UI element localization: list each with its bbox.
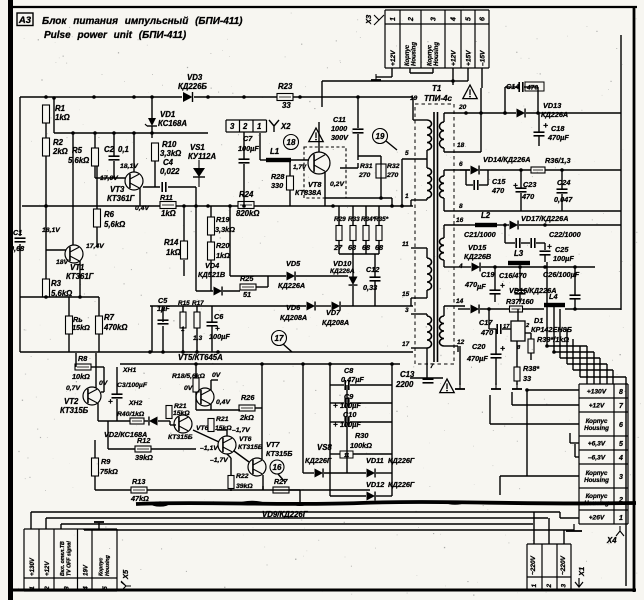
wire X3 pin4 down: [452, 68, 454, 85]
capacitor C13: [423, 379, 434, 383]
connector X4 arrow symbol: [616, 526, 624, 536]
svg-text:R7: R7: [104, 313, 115, 322]
capacitor C22: [531, 238, 535, 248]
wire bottom bundle 2: [46, 517, 548, 519]
svg-text:+12V: +12V: [451, 50, 458, 66]
svg-text:1: 1: [531, 584, 538, 588]
svg-text:C17: C17: [479, 318, 493, 327]
capacitor C18: [534, 132, 545, 136]
resistor R9: [92, 458, 99, 476]
wire X3 pin5 down: [453, 68, 468, 81]
svg-text:R40/1kΩ: R40/1kΩ: [117, 411, 145, 418]
svg-text:18,1V: 18,1V: [120, 163, 139, 170]
svg-text:1kΩ: 1kΩ: [166, 248, 181, 257]
wire R34* leads: [365, 206, 367, 254]
resistor R32: [381, 164, 386, 178]
svg-text:Х3: Х3: [364, 14, 373, 25]
resistor R39: [528, 339, 534, 353]
svg-text:КТ315Б: КТ315Б: [168, 434, 193, 441]
svg-text:VD1: VD1: [160, 110, 175, 119]
svg-text:C26/100µF: C26/100µF: [543, 270, 580, 279]
wire T1 pin4: [444, 260, 460, 267]
svg-text:470: 470: [521, 192, 534, 201]
wire bundle stair 4: [567, 333, 607, 384]
wire VT1 leads: [46, 133, 80, 297]
svg-text:VD6: VD6: [286, 303, 301, 312]
svg-text:R21: R21: [216, 416, 229, 423]
svg-text:12: 12: [457, 339, 465, 346]
svg-text:33: 33: [282, 101, 291, 110]
resistor R17: [194, 312, 200, 328]
diode VD17: [510, 221, 519, 230]
diode VD11: [367, 469, 376, 478]
svg-text:–15V: –15V: [480, 50, 487, 66]
svg-text:Вкл. откл.ТВ: Вкл. откл.ТВ: [60, 541, 66, 576]
svg-text:R38*: R38*: [523, 364, 540, 373]
svg-text:VD4: VD4: [205, 261, 219, 270]
wire VT2 leads: [96, 353, 117, 421]
wire left border vertical: [19, 97, 21, 352]
bold wire ink blotches: [151, 501, 169, 506]
capacitor C24: [557, 189, 568, 193]
svg-text:300V: 300V: [331, 133, 349, 142]
svg-text:2kΩ: 2kΩ: [239, 413, 254, 422]
wire X1 col1 riser: [533, 512, 535, 544]
svg-text:100kΩ: 100kΩ: [350, 441, 372, 450]
svg-text:VT6: VT6: [239, 436, 252, 443]
svg-text:Housing: Housing: [584, 425, 609, 432]
svg-text:18V: 18V: [56, 259, 70, 266]
svg-text:18,1V: 18,1V: [42, 227, 61, 234]
wire T1 pin8: [444, 198, 621, 211]
resistor R31: [376, 164, 381, 178]
wire X1 col2 riser: [548, 518, 550, 544]
svg-text:C6: C6: [214, 312, 224, 321]
svg-text:КТ315Б: КТ315Б: [266, 449, 292, 458]
wire bottom bundle 4: [84, 529, 574, 531]
svg-text:470kΩ: 470kΩ: [103, 323, 127, 332]
wire R14 leads: [183, 206, 185, 276]
svg-text:39kΩ: 39kΩ: [236, 483, 253, 490]
wire R6 leads: [96, 166, 98, 247]
svg-text:17: 17: [402, 341, 410, 348]
inductor L1: [266, 158, 291, 162]
svg-text:16: 16: [456, 217, 464, 224]
wire VD4 row: [196, 240, 268, 291]
zener diode VD1: [145, 118, 157, 126]
svg-text:0,022: 0,022: [160, 167, 180, 176]
svg-text:–6,3V: –6,3V: [588, 455, 606, 462]
svg-text:1kΩ: 1kΩ: [55, 113, 70, 122]
svg-text:VS8: VS8: [317, 443, 332, 452]
svg-text:Х5: Х5: [121, 569, 130, 580]
resistor R34*: [363, 226, 369, 241]
wire C23 leads: [520, 170, 522, 211]
svg-text:19V: 19V: [82, 564, 89, 576]
wire C24 leads: [561, 170, 563, 211]
svg-text:Х1: Х1: [577, 567, 586, 577]
resistor R6: [94, 209, 101, 227]
diode VD10: [349, 277, 358, 286]
svg-text:5: 5: [405, 150, 409, 157]
diode VD5: [287, 272, 296, 281]
svg-text:КР142ЕН8Б: КР142ЕН8Б: [531, 325, 572, 334]
wire R9 leads: [94, 440, 96, 490]
connector X1 table: [527, 544, 571, 590]
svg-text:5,6kΩ: 5,6kΩ: [68, 156, 89, 165]
svg-text:51: 51: [243, 290, 251, 299]
wire R35* leads: [378, 206, 380, 254]
svg-text:R29: R29: [334, 216, 346, 223]
svg-text:R32: R32: [387, 163, 400, 170]
wire mid rail to T1 pin1: [410, 200, 412, 206]
svg-text:VD13: VD13: [543, 101, 561, 110]
wire R27 out: [263, 486, 300, 502]
capacitor C4: [162, 182, 166, 192]
border frame left bar: [8, 0, 13, 600]
svg-text:Pulse power unit (БПИ-411): Pulse power unit (БПИ-411): [44, 30, 187, 41]
wire bundle stair 2: [554, 309, 594, 384]
junction dots group3: [487, 223, 577, 311]
transformer T1 secondary winding b: [440, 176, 445, 198]
capacitor C15: [474, 180, 478, 190]
svg-text:КД226Г: КД226Г: [388, 480, 415, 489]
diode VD7: [332, 302, 341, 311]
transistor VT7: [248, 458, 266, 476]
svg-text:2: 2: [546, 584, 553, 589]
wire VD1 vertical: [151, 97, 153, 138]
resistor R27: [273, 487, 289, 493]
svg-text:18: 18: [457, 142, 465, 149]
resistor R19: [208, 217, 215, 235]
svg-text:VD12: VD12: [366, 480, 384, 489]
svg-text:470: 470: [464, 280, 477, 289]
svg-text:Х4: Х4: [606, 536, 617, 545]
wire C15 loop: [466, 170, 488, 185]
svg-text:5,6kΩ: 5,6kΩ: [104, 220, 125, 229]
wire C4 row: [143, 161, 196, 187]
svg-text:2: 2: [44, 586, 51, 591]
svg-text:R22: R22: [236, 473, 249, 480]
wire 17 leader: [283, 344, 292, 352]
capacitor C11: [353, 129, 364, 133]
transformer T1 secondary winding c: [440, 238, 445, 260]
connector X1 arrow symbol: [575, 578, 583, 587]
svg-text:R36/1,3: R36/1,3: [545, 156, 571, 165]
ground below X4 +26V: [573, 524, 575, 531]
svg-text:+: +: [500, 343, 505, 353]
capacitor C17: [497, 324, 501, 334]
wire VT3 collector emitter: [134, 133, 140, 206]
junction dots top rail: [44, 95, 360, 99]
svg-text:17,9V: 17,9V: [100, 175, 119, 182]
resistor R33: [350, 226, 356, 241]
svg-text:C25: C25: [555, 245, 569, 254]
diode VD14: [471, 166, 480, 175]
junction dots left lower: [44, 204, 82, 299]
svg-text:C20: C20: [472, 342, 485, 351]
wire C5 leads: [162, 306, 164, 322]
svg-text:C8: C8: [344, 366, 354, 375]
svg-text:КД226Г: КД226Г: [388, 456, 415, 465]
capacitor C25: [540, 251, 551, 255]
svg-text:0V: 0V: [212, 372, 222, 379]
wire T1 pin14: [444, 306, 465, 316]
svg-text:1: 1: [29, 586, 36, 590]
svg-text:КД208А: КД208А: [280, 313, 307, 322]
resistor R36: [531, 167, 545, 173]
wire R2 to node: [45, 156, 47, 279]
svg-text:1: 1: [405, 193, 409, 200]
svg-text:+12V: +12V: [589, 403, 605, 410]
resistor R3: [43, 279, 50, 297]
svg-text:6: 6: [459, 161, 463, 168]
wire T1 pin12: [444, 346, 458, 352]
wire R5 leads: [94, 133, 96, 178]
wire R8 row: [76, 353, 104, 392]
wire R26 out: [255, 364, 262, 430]
svg-text:КТ315Б: КТ315Б: [60, 406, 89, 415]
connector X2 table: [226, 120, 267, 132]
svg-text:VD3: VD3: [187, 73, 203, 82]
connector X3 table: [385, 10, 489, 68]
svg-text:1kΩ: 1kΩ: [216, 251, 230, 260]
wire lower rail 1: [20, 351, 413, 353]
resistor R1: [43, 105, 50, 123]
svg-text:~220V: ~220V: [530, 555, 537, 575]
svg-text:L1: L1: [270, 147, 279, 156]
svg-text:Housing: Housing: [412, 42, 418, 66]
svg-text:2200: 2200: [395, 380, 414, 389]
svg-text:КД226В: КД226В: [464, 252, 491, 261]
svg-text:C4: C4: [163, 158, 174, 167]
wire X3 bus to VT8: [322, 80, 453, 82]
svg-text:R8: R8: [78, 354, 88, 363]
wire T1 pin7: [426, 348, 428, 378]
wire R29 leads: [338, 206, 340, 254]
svg-text:270: 270: [386, 172, 399, 179]
svg-text:11: 11: [344, 453, 349, 459]
connector X2 arrow symbol: [269, 120, 279, 132]
capacitor C8: [345, 380, 349, 390]
svg-text:75kΩ: 75kΩ: [100, 467, 118, 476]
wire C12 vertical: [374, 254, 376, 306]
resistor R40: [130, 418, 144, 424]
junction dots group2: [503, 111, 564, 172]
svg-text:3: 3: [619, 474, 623, 481]
wire T1 pin17: [411, 347, 427, 349]
transistor VT8: [308, 152, 330, 174]
svg-text:470µF: 470µF: [547, 133, 569, 142]
wire R14 C12 row: [195, 187, 197, 240]
svg-text:C18: C18: [551, 124, 565, 133]
svg-text:2kΩ: 2kΩ: [52, 147, 68, 156]
wire VD13 rail: [466, 112, 621, 114]
svg-text:330: 330: [271, 181, 283, 190]
svg-text:5: 5: [102, 586, 109, 590]
svg-text:18: 18: [287, 138, 296, 147]
diode VD16: [471, 305, 480, 314]
wire X3 col6 drop to rail: [480, 88, 482, 113]
wire R29-R35 bottom bus: [339, 253, 379, 255]
svg-text:ХН1: ХН1: [122, 367, 136, 374]
wire C19 C16 C26 verticals: [495, 267, 575, 309]
svg-text:20: 20: [458, 104, 467, 111]
svg-text:1,3: 1,3: [193, 335, 202, 342]
svg-text:R1: R1: [55, 104, 65, 113]
svg-text:А3: А3: [18, 15, 32, 26]
wire into row3: [500, 476, 579, 495]
svg-text:VD7: VD7: [326, 308, 341, 317]
svg-text:Housing: Housing: [434, 42, 440, 66]
svg-text:19: 19: [376, 132, 385, 141]
wire bundle sources: [547, 262, 580, 350]
resistor R25: [240, 284, 256, 290]
svg-text:3: 3: [63, 586, 70, 590]
resistor R13: [131, 487, 147, 493]
svg-text:VD5: VD5: [286, 259, 301, 268]
svg-text:Housing: Housing: [105, 554, 111, 576]
svg-text:C16/470: C16/470: [499, 271, 527, 280]
svg-text:8: 8: [459, 203, 463, 210]
reference circle 17: [272, 331, 287, 346]
transistor VT1: [65, 245, 83, 263]
svg-text:R37/160: R37/160: [506, 297, 534, 306]
svg-text:R20: R20: [216, 241, 229, 250]
wire right vertical inner: [620, 35, 622, 310]
svg-text:15kΩ: 15kΩ: [72, 323, 90, 332]
svg-text:L4: L4: [549, 292, 558, 301]
capacitor C9: [345, 398, 349, 408]
wire X3 pins 2-3 bus: [410, 68, 433, 73]
svg-text:R21: R21: [174, 403, 187, 410]
junction dots X3 bus: [451, 79, 455, 83]
junction dots mid rail: [44, 204, 335, 208]
svg-text:68: 68: [348, 243, 357, 252]
connector X3 arrow symbol: [374, 15, 384, 25]
svg-text:6: 6: [619, 422, 623, 429]
svg-text:C2: C2: [104, 145, 115, 154]
svg-text:100µF: 100µF: [553, 254, 574, 263]
svg-text:11: 11: [402, 241, 409, 248]
svg-text:R12: R12: [137, 436, 150, 445]
wire VT8 region: [290, 81, 358, 206]
svg-text:+26V: +26V: [589, 515, 605, 522]
wire VD12 row: [330, 473, 392, 496]
wire R40 VD2 row: [98, 420, 170, 422]
diode VD6: [307, 302, 316, 311]
resistor R18: [193, 378, 199, 392]
svg-text:0V: 0V: [99, 380, 109, 387]
wire T1 pin11: [411, 248, 427, 258]
svg-text:R24: R24: [239, 190, 254, 199]
transformer T1 secondary winding a: [440, 122, 445, 148]
svg-text:C23: C23: [523, 180, 536, 189]
resistor R15: [180, 312, 186, 328]
transformer T1 dashed box: [415, 104, 454, 364]
svg-text:4: 4: [82, 586, 89, 591]
junction dots R31 R32: [379, 196, 404, 208]
wire C25 bottom: [544, 255, 546, 262]
wire VD5 row: [230, 206, 348, 287]
svg-text:µF: µF: [476, 282, 486, 291]
diode VD15: [472, 263, 481, 272]
wire into row6 ground: [490, 395, 579, 424]
diode VD2: [149, 417, 158, 426]
wire VD6 row to T1: [410, 298, 412, 306]
wire mid rail: [22, 205, 413, 207]
svg-text:1: 1: [257, 122, 261, 131]
wire R38 leads: [516, 341, 518, 385]
wire VT3 base row: [95, 177, 125, 179]
svg-text:1,7V: 1,7V: [293, 164, 307, 171]
wire L2 VD17 row: [470, 224, 621, 226]
wire T1 pin5: [402, 150, 427, 168]
junction dots osc rail: [52, 96, 154, 135]
svg-text:19: 19: [410, 95, 418, 102]
wire T1 pin1: [411, 198, 427, 200]
wire R12 R13 row: [95, 421, 370, 490]
wire T1 pin3: [411, 314, 427, 316]
wire X1 col3 riser: [563, 530, 565, 544]
svg-text:VD11: VD11: [366, 456, 384, 465]
svg-text:C15: C15: [492, 177, 506, 186]
resistor R20: [208, 242, 215, 260]
capacitor C21: [516, 238, 520, 248]
svg-text:R28: R28: [271, 172, 285, 181]
resistor R28: [287, 176, 294, 190]
svg-text:Корпус: Корпус: [99, 558, 105, 576]
wire top rail: [20, 96, 413, 98]
wire C7 vertical: [243, 132, 245, 206]
resistor R21b: [166, 406, 172, 419]
svg-text:3: 3: [431, 17, 438, 21]
svg-text:16: 16: [273, 463, 282, 472]
svg-text:КД226А: КД226А: [278, 281, 305, 290]
svg-text:R18/5,6kΩ: R18/5,6kΩ: [172, 373, 206, 380]
border frame top: [8, 6, 637, 8]
wire bottom bundle 3: [61, 523, 533, 525]
svg-text:R19: R19: [216, 215, 230, 224]
wire VD8 VD11 row: [303, 472, 392, 474]
wire into row7 +12V: [512, 392, 579, 405]
svg-text:1: 1: [390, 17, 397, 21]
junction dots lower rails: [148, 350, 394, 366]
warning triangle below T1: [440, 379, 454, 393]
resistor R29: [336, 226, 342, 241]
capacitor C12: [370, 277, 381, 281]
transistor VT5a: [196, 388, 214, 406]
svg-text:470: 470: [491, 186, 504, 195]
svg-text:1: 1: [619, 515, 623, 522]
transformer T1 primary winding a: [427, 120, 432, 150]
svg-text:+: +: [547, 242, 552, 251]
ground below R38: [512, 383, 522, 389]
svg-text:+6,3V: +6,3V: [588, 441, 606, 448]
capacitor C3: [112, 394, 123, 398]
svg-text:0,047: 0,047: [554, 195, 573, 204]
svg-text:Корпус: Корпус: [586, 470, 608, 477]
wire VS8 row: [330, 453, 392, 455]
svg-text:R30: R30: [355, 431, 368, 440]
svg-text:КД226А: КД226А: [330, 268, 355, 275]
resistor R11: [160, 202, 176, 209]
resistor R37: [510, 306, 523, 312]
wire C13 leads: [410, 378, 443, 379]
svg-text:КТ838А: КТ838А: [295, 188, 321, 197]
svg-text:–1,1V: –1,1V: [200, 445, 219, 452]
svg-text:+130V: +130V: [587, 389, 607, 396]
